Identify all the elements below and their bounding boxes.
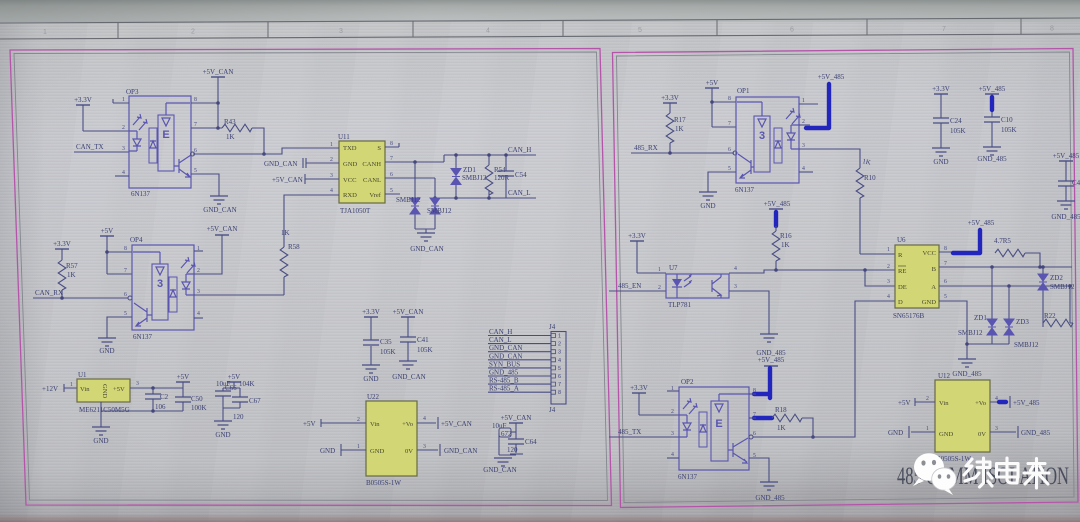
svg-text:B0505S-1W: B0505S-1W [366,479,401,487]
svg-text:1K: 1K [777,424,786,432]
wire U11 RXD to R58 column [284,195,327,247]
wire TVS common to ground [967,343,1009,345]
net port GND_CAN (U11 pin2) [264,158,327,168]
svg-text:6N137: 6N137 [131,190,151,198]
OP3 pin1 stub [113,99,129,103]
svg-text:6: 6 [558,374,561,380]
svg-text:CANL: CANL [363,177,381,184]
svg-text:6: 6 [728,147,731,153]
svg-text:SN65176B: SN65176B [893,312,924,320]
svg-text:2: 2 [558,342,561,348]
TVS ZD2 SMBJ12 [1038,265,1075,327]
OP4 pin6 bubble [128,296,132,300]
svg-text:GND_CAN: GND_CAN [264,160,297,168]
wire +5V to OP1 pin8 [712,101,736,103]
wire R18 to OP2 pin6 net [802,418,813,437]
svg-text:6N137: 6N137 [133,333,153,341]
wire U7 pin3 to ground [729,291,769,334]
junction DE tie [863,268,867,272]
thick blue mark +5V_485 (U6 VCC) [953,230,980,253]
junction CANH branch [413,160,417,164]
svg-text:485_TX: 485_TX [618,428,641,436]
wire OP2 pin8 [749,393,756,395]
ground GND_485 under OP2 [755,482,785,502]
svg-text:R10: R10 [864,174,876,182]
resistor R17 1K [666,113,686,153]
svg-text:1: 1 [43,29,47,36]
resistor R16 1K [772,226,792,270]
svg-text:100K: 100K [191,404,207,412]
wire U6 B bus [939,266,1072,268]
svg-text:GND: GND [888,429,903,437]
svg-text:1: 1 [658,267,661,273]
wire U1 out to +5V rail [130,387,183,389]
power port +3.3V (OP2) [630,384,648,415]
ground GND_CAN under OP3 [191,174,237,214]
OP3 pin6 bubble [191,152,195,156]
svg-text:0V: 0V [405,448,413,455]
svg-text:8: 8 [728,96,731,102]
svg-text:J4: J4 [549,323,556,331]
wire OP3 pin6 to U11 TXD [193,148,327,154]
svg-text:105K: 105K [417,346,433,354]
svg-text:7: 7 [728,121,731,127]
svg-text:2: 2 [887,264,890,270]
svg-text:VCC: VCC [922,250,936,257]
TVS ZD3 SMBJ12 (A line) [1004,286,1039,349]
svg-text:4: 4 [330,188,333,194]
svg-text:RXD: RXD [343,192,357,199]
svg-text:RE: RE [898,268,906,275]
svg-text:C50: C50 [191,395,203,403]
RS485 transceiver U6 SN65176B [893,236,939,320]
svg-text:1: 1 [357,444,360,450]
svg-text:D: D [898,299,903,306]
wire R43 to pin6 net [252,128,264,154]
svg-text:3: 3 [136,381,139,387]
svg-text:3: 3 [802,143,805,149]
junction R17/485_RX [668,151,672,155]
svg-text:5: 5 [728,166,731,172]
svg-text:4: 4 [423,416,426,422]
svg-text:U22: U22 [367,393,380,401]
svg-text:+5V_485: +5V_485 [764,200,791,208]
svg-text:3: 3 [339,28,343,35]
wire CAN_RX to OP4 pin6 [33,297,128,299]
svg-text:GND_CAN: GND_CAN [203,206,236,214]
OP4 pin1 stub [194,250,203,252]
svg-text:GND_CAN: GND_CAN [410,245,443,253]
svg-text:+5V_485: +5V_485 [979,85,1006,93]
svg-text:C24: C24 [950,117,962,125]
junction B/R5 [1038,265,1042,269]
svg-text:CAN_L: CAN_L [508,189,531,197]
wire OP1 pin5 to ground [708,172,736,192]
resistor R57 1K [58,260,78,298]
ground GND under OP4 [98,338,116,355]
wire CANH drop to TVS [414,162,416,229]
wire OP1 pin3 to R10 [799,149,860,168]
connector J4 [549,323,566,414]
svg-text:ZD1: ZD1 [463,166,476,174]
right sheet frame (magenta) [613,49,1079,508]
junction C2 tap [151,386,155,390]
svg-text:TJA1050T: TJA1050T [340,207,371,215]
svg-text:+5V: +5V [113,386,125,393]
junction OP4 pin8 [105,250,109,254]
svg-text:+3.3V: +3.3V [362,308,380,316]
ground GND under C66 [214,408,232,439]
resistor R10 [856,168,876,254]
thick blue mark on C10 lead [990,97,994,110]
U1 pin numbers [70,381,139,388]
svg-text:+Vo: +Vo [402,421,414,428]
watermark text 绿电来 (white strokes) [964,458,1049,488]
U12 pin numbers [926,396,998,432]
svg-text:120R: 120R [494,174,510,182]
svg-text:GND: GND [363,375,378,383]
svg-text:GND: GND [101,384,108,399]
svg-text:8: 8 [944,246,947,252]
TVS ZD1 SMBJ12 (between CAN_H and CAN_L) [451,153,487,200]
svg-text:GND: GND [93,437,108,445]
power port +3.3V (left of OP3) [74,96,92,131]
svg-text:+3.3V: +3.3V [932,85,950,93]
svg-text:1: 1 [558,334,561,340]
svg-text:C10: C10 [1001,116,1013,124]
net port +12V [42,384,77,393]
svg-text:OP3: OP3 [126,88,139,96]
svg-text:+5V: +5V [303,420,316,428]
optocoupler OP3 6N137 [126,88,191,198]
svg-text:+3.3V: +3.3V [661,94,679,102]
svg-text:J4: J4 [549,406,556,414]
left sheet frame inner line [14,52,608,501]
svg-text:+3.3V: +3.3V [74,96,92,104]
svg-text:8: 8 [1050,26,1054,33]
power port +5V (C66 C67) [227,373,241,388]
svg-text:GND: GND [99,347,114,355]
net port +5V_CAN (U11 pin3) [272,174,327,184]
svg-text:RS-485_B: RS-485_B [489,377,519,385]
svg-text:GND: GND [343,161,358,168]
svg-text:3: 3 [759,130,765,142]
junction A/ZD drop [1007,284,1011,288]
svg-text:7: 7 [942,26,946,33]
OP2 pin numbers [671,386,756,459]
svg-text:ZD1: ZD1 [974,314,987,322]
header column numbers [43,26,1054,37]
svg-text:6N137: 6N137 [735,186,755,194]
wire +3.3V to OP3 pin2 [83,130,129,132]
svg-text:OP2: OP2 [681,378,694,386]
svg-text:GND_485: GND_485 [755,494,785,502]
svg-text:S: S [377,145,381,152]
capacitor C41 105K [392,308,432,381]
junction R57/CAN_RX [60,296,64,300]
wire +5V to OP4 pin8 [107,251,132,253]
svg-text:120: 120 [507,446,518,454]
svg-text:5: 5 [390,188,393,194]
svg-text:+5V_CAN: +5V_CAN [441,420,472,428]
svg-text:U7: U7 [669,264,678,272]
svg-text:CAN_L: CAN_L [489,336,512,344]
svg-text:8: 8 [124,246,127,252]
svg-text:R17: R17 [674,116,686,124]
svg-text:485_EN: 485_EN [618,282,641,290]
junction R18 drop [811,435,815,439]
svg-text:C35: C35 [380,338,392,346]
OP4 pin numbers [124,246,200,317]
U7 pin numbers [658,266,737,291]
U6 pin numbers [887,246,947,300]
capacitor C2 106 [145,388,169,411]
ground GND under OP1 [699,192,717,210]
power port +5V (OP4) [100,227,114,274]
svg-text:4: 4 [486,28,490,35]
svg-text:1: 1 [926,426,929,432]
ground GND_CAN under C64 [483,455,516,474]
optocoupler OP1 6N137 (mirrored) [735,87,800,194]
svg-text:3: 3 [995,426,998,432]
svg-text:7: 7 [753,412,756,418]
U11 pin8 stub tick [398,143,400,147]
svg-text:1K: 1K [281,229,290,237]
svg-text:SMBJ12: SMBJ12 [1014,341,1039,349]
thick blue mark +5V_485 (OP1 pin2) [806,84,829,128]
svg-text:GND: GND [700,202,715,210]
svg-text:C54: C54 [515,171,527,179]
CAN transceiver U11 TJA1050T [327,133,444,215]
svg-text:Vin: Vin [370,421,380,428]
svg-text:C4: C4 [1072,179,1080,187]
svg-text:GND: GND [922,299,937,306]
OP2 pin4 stub [667,457,679,459]
svg-text:OP4: OP4 [130,236,143,244]
svg-text:6: 6 [944,279,947,285]
svg-text:CAN_TX: CAN_TX [76,143,104,151]
svg-text:GND_485: GND_485 [977,155,1007,163]
svg-text:7: 7 [944,261,947,267]
svg-text:GND: GND [370,448,385,455]
svg-text:7: 7 [194,122,197,128]
svg-text:ZD3: ZD3 [1016,318,1029,326]
capacitor C64 [507,438,537,454]
resistor R58 1K (RXD pulldown) [280,229,300,295]
wire R10 to U6 R [860,253,895,255]
power port +5V_CAN (OP4 pin2) [207,225,238,235]
svg-text:GND_CAN: GND_CAN [489,344,522,352]
svg-text:+3.3V: +3.3V [53,240,71,248]
wire CANH riser to CAN_H line [443,155,445,162]
power port +3.3V (R57) [53,240,71,260]
svg-text:VCC: VCC [343,177,357,184]
svg-text:1K: 1K [226,133,235,141]
svg-text:2: 2 [197,268,200,274]
svg-text:+3.3V: +3.3V [630,384,648,392]
svg-text:Vin: Vin [939,400,949,407]
svg-text:5: 5 [124,311,127,317]
svg-text:2: 2 [671,409,674,415]
OP2 pin6 bubble [749,435,753,439]
capacitor C35 105K [362,308,396,383]
svg-text:3: 3 [887,279,890,285]
svg-text:7: 7 [390,156,393,162]
svg-text:6N137: 6N137 [678,473,698,481]
power port +5V (OP1) [705,79,719,127]
svg-text:4: 4 [558,358,561,364]
power port +3.3V (R17) [661,94,679,113]
svg-text:+Vo: +Vo [975,400,987,407]
svg-text:6: 6 [124,292,127,298]
wire CAN_TX to OP3 pin3 [74,151,129,153]
svg-text:SMBJ12: SMBJ12 [462,174,487,182]
power port +5V_CAN (top, above OP3) [203,68,234,128]
wire CAN_H bus [444,154,536,156]
U22 pin numbers [357,416,426,450]
svg-text:1K: 1K [781,241,790,249]
junction pin8/rail [216,101,220,105]
svg-text:5: 5 [558,366,561,372]
svg-text:C2: C2 [160,393,169,401]
junction CANL [433,196,437,200]
wire 485_EN to U7 pin2 [609,290,666,292]
wire DE tie [865,270,895,286]
svg-text:1K: 1K [67,271,76,279]
svg-text:Vin: Vin [80,386,90,393]
wire CAN_L bus [435,197,536,199]
DC-DC U12 B0505S-1W [935,372,990,463]
svg-text:+5V_485: +5V_485 [758,356,785,364]
power port +5V_485 (OP2) [758,356,785,366]
svg-text:3: 3 [423,444,426,450]
junction R43 drop [262,152,266,156]
svg-text:SMBJ12: SMBJ12 [396,196,421,204]
resistor R18 1K [772,406,802,432]
svg-text:5: 5 [944,294,947,300]
wire OP2 pin7 [749,417,756,419]
svg-text:GND_485: GND_485 [952,370,982,378]
svg-text:+5V_485: +5V_485 [1013,399,1040,407]
svg-text:U6: U6 [897,236,906,244]
svg-text:U12: U12 [938,372,951,380]
left sheet frame (magenta) [10,49,612,506]
svg-text:TLP781: TLP781 [668,301,691,309]
svg-text:GND_CAN: GND_CAN [444,447,477,455]
svg-text:SMBJ12: SMBJ12 [958,329,983,337]
net port +5V (U22 in) [303,419,366,428]
svg-text:1: 1 [887,247,890,253]
svg-text:CAN_RX: CAN_RX [35,289,63,297]
svg-text:1: 1 [122,97,125,103]
svg-text:GND: GND [215,431,230,439]
svg-text:8: 8 [558,390,561,396]
svg-text:4: 4 [734,266,737,272]
svg-text:4: 4 [671,452,674,458]
TVS ZD1 SMBJ12 (B line) [958,267,997,344]
thick blue marks +5V_485 to OP2 [754,368,772,418]
svg-text:0V: 0V [978,431,986,438]
svg-text:3: 3 [157,278,163,290]
resistor R43 1K [222,118,252,141]
svg-text:105K: 105K [1001,126,1017,134]
wire +5V to OP1 pin7 [712,126,736,128]
svg-text:104K: 104K [239,380,255,388]
svg-text:6: 6 [390,172,393,178]
svg-text:4.7R5: 4.7R5 [994,237,1011,245]
resistor R54 120R [485,153,509,200]
header column dividers [118,18,1021,38]
svg-text:+3.3V: +3.3V [628,232,646,240]
svg-text:+5V_CAN: +5V_CAN [393,308,424,316]
ground GND_CAN under TVS [410,229,443,253]
power port +5V_485 (R16) [764,200,791,209]
junction pin7/R43 [216,126,220,130]
svg-text:5: 5 [638,27,642,34]
svg-text:GND_485: GND_485 [489,369,519,377]
capacitor C54 [498,153,527,198]
svg-text:120: 120 [233,413,244,421]
wire OP3 pin8 to +5V_CAN rail [191,102,218,104]
svg-text:672: 672 [501,430,512,438]
net port +5V (U12 in) [898,398,935,407]
svg-text:4: 4 [197,311,200,317]
svg-text:2: 2 [658,285,661,291]
svg-text:+5V: +5V [706,79,719,87]
svg-text:8: 8 [194,97,197,103]
wire OP4 pin5 to ground [107,317,132,338]
svg-text:A: A [931,284,936,291]
svg-text:C66: C66 [225,384,237,392]
ferrite bead 672 [499,428,516,455]
svg-text:7: 7 [558,382,561,388]
junction OP1 pin8 [710,100,714,104]
svg-text:CANH: CANH [362,161,381,168]
net port GND (U12 in) [888,426,935,438]
capacitor C4 (right edge) [1051,152,1080,221]
svg-text:3: 3 [558,350,561,356]
svg-text:4: 4 [887,294,890,300]
wire CANL drop [434,178,436,229]
svg-text:2: 2 [191,29,195,36]
U11 pin numbers [330,141,393,194]
svg-text:CAN_H: CAN_H [489,328,512,336]
wire +5V to OP4 pin7 [107,273,132,275]
thick blue dash (U12 out) [999,400,1006,404]
svg-text:2: 2 [122,125,125,131]
svg-text:GND_CAN: GND_CAN [392,373,425,381]
svg-text:1K: 1K [675,125,684,133]
svg-text:SMBJ12: SMBJ12 [427,207,452,215]
OP4 pin4 stub [194,317,203,319]
wire +3.3V to OP2 pin2 [639,414,679,416]
svg-text:R58: R58 [288,243,300,251]
svg-text:3: 3 [197,289,200,295]
wire 485_RX to OP1 pin6 [631,152,734,154]
wire +3.3V to U7 pin1 [637,272,666,274]
sheet header ruler line bottom [0,34,1080,39]
power port +5V_CAN (C64) [501,414,532,439]
svg-text:R57: R57 [66,262,78,270]
svg-text:GND: GND [939,431,954,438]
junction R16/RE [774,268,778,272]
svg-text:106: 106 [155,403,166,411]
svg-text:R43: R43 [224,118,236,126]
svg-text:R18: R18 [775,406,787,414]
svg-text:4: 4 [122,170,125,176]
wire OP4 pin2 to +5V_CAN [194,235,222,274]
right sheet frame inner line [617,52,1075,503]
